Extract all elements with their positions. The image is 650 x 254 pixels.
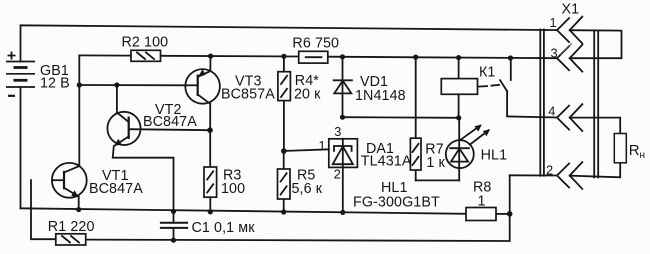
svg-text:TL431A: TL431A (361, 154, 412, 170)
svg-text:20 к: 20 к (294, 86, 321, 102)
svg-text:1: 1 (319, 138, 326, 153)
svg-text:1: 1 (550, 15, 557, 30)
svg-text:X1: X1 (562, 2, 580, 18)
svg-text:1: 1 (478, 194, 486, 210)
svg-text:HL1: HL1 (481, 148, 508, 164)
svg-text:100: 100 (221, 181, 245, 197)
svg-text:К1: К1 (479, 65, 495, 81)
svg-text:2: 2 (334, 166, 341, 181)
svg-text:FG-300G1BT: FG-300G1BT (353, 195, 440, 211)
svg-text:R2 100: R2 100 (122, 34, 169, 50)
svg-text:R1 220: R1 220 (48, 219, 95, 235)
svg-text:1N4148: 1N4148 (355, 88, 406, 104)
svg-text:2: 2 (546, 162, 553, 177)
svg-text:BC857A: BC857A (221, 87, 275, 103)
svg-text:5,6 к: 5,6 к (292, 181, 323, 197)
svg-text:12 В: 12 В (40, 76, 70, 92)
svg-text:BC847A: BC847A (89, 181, 143, 197)
svg-text:BC847A: BC847A (143, 114, 197, 130)
svg-text:R6 750: R6 750 (292, 35, 339, 51)
svg-text:C1 0,1 мк: C1 0,1 мк (192, 220, 256, 236)
svg-text:4: 4 (548, 104, 555, 119)
svg-text:3: 3 (551, 46, 558, 61)
svg-text:3: 3 (334, 124, 341, 139)
svg-text:1 к: 1 к (426, 155, 445, 171)
svg-text:н: н (640, 150, 646, 161)
svg-text:R: R (629, 142, 640, 159)
